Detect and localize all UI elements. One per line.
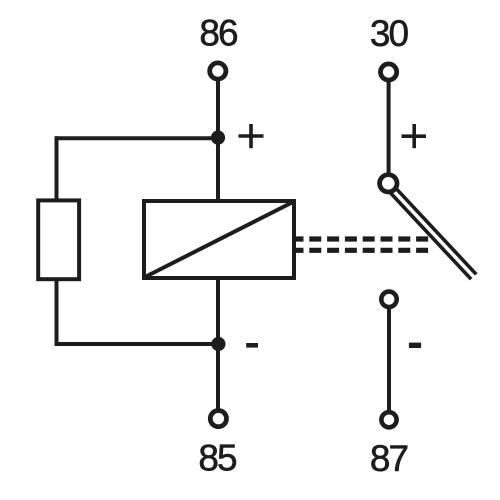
- plus polarity mark at terminal 30: [402, 124, 427, 148]
- terminal 85 pin circle: [210, 411, 226, 427]
- wire node A to coil top: [216, 137, 220, 201]
- resistor R1: [38, 200, 79, 279]
- wire top horizontal node A to resistor branch: [57, 136, 219, 140]
- mechanical linkage dashed line lower: [296, 248, 433, 253]
- wire 30 pin to switch pivot: [387, 80, 391, 175]
- wire 86 pin to node A: [216, 79, 220, 137]
- terminal label 86: [199, 13, 237, 54]
- terminal 86 pin circle: [210, 63, 226, 79]
- wire coil bottom to node B: [216, 279, 220, 344]
- svg-text:85: 85: [198, 438, 237, 479]
- terminal 87 pin circle: [381, 412, 396, 427]
- svg-text:86: 86: [199, 13, 237, 54]
- wire resistor branch left vertical lower: [55, 280, 59, 346]
- switch pivot circle: [380, 175, 397, 192]
- relay coil K1 box: [144, 201, 294, 278]
- switch arm line outer: [396, 188, 476, 274]
- wire bottom horizontal resistor branch to node B: [57, 342, 219, 346]
- terminal 30 pin circle: [381, 64, 397, 80]
- terminal label 30: [370, 13, 409, 54]
- minus polarity mark at node B: [246, 343, 258, 348]
- junction node A: [211, 131, 225, 145]
- wire resistor branch left vertical upper: [55, 136, 59, 199]
- plus polarity mark at node A: [239, 124, 264, 148]
- terminal label 85: [198, 438, 237, 479]
- svg-text:30: 30: [370, 13, 409, 54]
- terminal label 87: [370, 438, 408, 479]
- relay coil K1 diagonal: [145, 202, 293, 277]
- mechanical linkage dashed line upper: [296, 236, 429, 241]
- fixed contact 87 circle: [381, 292, 396, 307]
- minus polarity mark at terminal 87 branch: [409, 343, 421, 348]
- svg-text:87: 87: [370, 438, 408, 479]
- wire node B to 85 pin: [216, 344, 220, 411]
- switch arm line inner: [391, 193, 471, 279]
- junction node B: [211, 337, 225, 351]
- wire fixed contact 87 to 87 pin: [387, 307, 391, 412]
